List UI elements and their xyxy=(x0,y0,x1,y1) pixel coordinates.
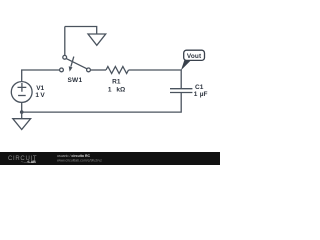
wire xyxy=(64,27,66,56)
voltage source V1 xyxy=(11,82,32,103)
junction node xyxy=(20,110,24,114)
wire xyxy=(129,70,182,89)
svg-text:C1: C1 xyxy=(195,84,204,91)
svg-text:V1: V1 xyxy=(36,85,44,92)
capacitor C1 xyxy=(170,89,192,93)
svg-text:1: 1 xyxy=(108,86,112,93)
svg-text:usuario / circuito RC: usuario / circuito RC xyxy=(57,154,91,158)
node Vout flag xyxy=(181,59,191,70)
svg-text:µF: µF xyxy=(200,91,208,98)
resistor R1 xyxy=(106,67,129,74)
svg-text:Vout: Vout xyxy=(187,53,202,60)
V1 minus sign xyxy=(18,95,26,97)
svg-text:R1: R1 xyxy=(112,79,121,86)
svg-text:1: 1 xyxy=(35,92,39,99)
ground xyxy=(13,119,31,130)
svg-text:1: 1 xyxy=(194,91,198,98)
wire xyxy=(90,69,106,71)
wire xyxy=(21,102,23,118)
wire xyxy=(22,93,182,113)
node Vout box xyxy=(184,50,205,60)
svg-text:∼—▪LAB: ∼—▪LAB xyxy=(21,160,37,164)
wire xyxy=(22,70,60,82)
svg-text:kΩ: kΩ xyxy=(116,86,125,93)
footer bar xyxy=(0,152,220,165)
svg-text:V: V xyxy=(40,92,45,99)
ground xyxy=(88,34,106,45)
switch SW1 xyxy=(60,55,91,71)
svg-text:www.circuitlab.com/c/9fu2rvz: www.circuitlab.com/c/9fu2rvz xyxy=(57,158,102,162)
V1 plus sign xyxy=(18,83,27,92)
wire xyxy=(65,27,97,35)
svg-text:SW1: SW1 xyxy=(67,77,82,84)
